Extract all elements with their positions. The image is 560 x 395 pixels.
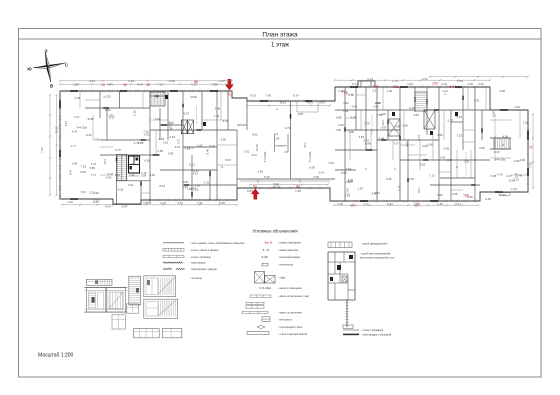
svg-text:2.92: 2.92 <box>343 101 349 105</box>
svg-text:8.01: 8.01 <box>417 187 421 193</box>
svg-text:2.85: 2.85 <box>158 149 164 153</box>
svg-text:9.52: 9.52 <box>169 121 175 125</box>
svg-text:4.37: 4.37 <box>506 174 512 178</box>
svg-text:2Н: 2Н <box>101 83 106 87</box>
svg-text:2.83: 2.83 <box>359 135 365 139</box>
svg-text:1.79: 1.79 <box>392 79 398 83</box>
svg-text:1.42: 1.42 <box>67 200 73 204</box>
svg-text:7.28: 7.28 <box>343 109 349 113</box>
svg-text:7а: 7а <box>227 93 231 97</box>
svg-text:1.39: 1.39 <box>409 177 415 181</box>
svg-text:3.46: 3.46 <box>215 107 221 111</box>
svg-text:6.72: 6.72 <box>352 82 358 86</box>
svg-text:7.20: 7.20 <box>40 147 44 153</box>
svg-text:- лестница: - лестница <box>190 277 203 280</box>
svg-text:9.69: 9.69 <box>94 137 100 141</box>
svg-text:Т=4.09м: Т=4.09м <box>263 152 267 163</box>
svg-text:9.03: 9.03 <box>250 94 256 98</box>
svg-text:8.92: 8.92 <box>252 133 258 137</box>
svg-text:8.35: 8.35 <box>491 174 497 178</box>
svg-text:- высота помещения: - высота помещения <box>278 287 303 290</box>
svg-text:7.23: 7.23 <box>80 190 86 194</box>
svg-text:1.46: 1.46 <box>517 173 523 177</box>
svg-text:3.36: 3.36 <box>452 192 458 196</box>
svg-text:6.33: 6.33 <box>184 111 190 115</box>
svg-text:- стена с окном и дверью: - стена с окном и дверью <box>190 249 219 252</box>
svg-text:2.52: 2.52 <box>478 82 484 86</box>
svg-text:h=4.05м: h=4.05м <box>495 158 506 162</box>
svg-text:1.99: 1.99 <box>274 137 280 141</box>
svg-text:2.31: 2.31 <box>204 181 210 185</box>
svg-text:8.89: 8.89 <box>365 142 371 146</box>
svg-text:2.27: 2.27 <box>197 201 203 205</box>
svg-text:5.12: 5.12 <box>189 162 195 166</box>
svg-text:9.45: 9.45 <box>479 146 485 150</box>
svg-text:1.29: 1.29 <box>387 89 393 93</box>
svg-text:5.19: 5.19 <box>132 110 136 116</box>
svg-text:2.23: 2.23 <box>115 173 121 177</box>
svg-text:4.53: 4.53 <box>93 191 99 195</box>
svg-text:4.62: 4.62 <box>371 191 377 195</box>
svg-text:3.91: 3.91 <box>348 178 354 182</box>
svg-text:9.48: 9.48 <box>379 137 385 141</box>
svg-text:4.86: 4.86 <box>395 125 401 129</box>
svg-text:8.59: 8.59 <box>219 201 225 205</box>
svg-text:8.46: 8.46 <box>206 148 210 154</box>
svg-text:3.39: 3.39 <box>143 201 149 205</box>
svg-text:7.37: 7.37 <box>397 185 401 191</box>
svg-text:5.32: 5.32 <box>456 115 462 119</box>
svg-text:9.08: 9.08 <box>309 166 315 170</box>
svg-text:Масштаб 1:200: Масштаб 1:200 <box>38 353 74 359</box>
svg-text:9.02: 9.02 <box>94 198 100 202</box>
svg-text:- номер помещения: - номер помещения <box>278 241 302 244</box>
svg-text:3Н: 3Н <box>123 83 128 87</box>
svg-text:7.73: 7.73 <box>177 139 181 145</box>
svg-text:4.22: 4.22 <box>160 201 166 205</box>
svg-text:6.66: 6.66 <box>80 170 86 174</box>
svg-text:- стена с верхней балкой: - стена с верхней балкой <box>278 333 308 336</box>
svg-text:3.50: 3.50 <box>363 203 369 207</box>
svg-text:6.26: 6.26 <box>144 159 150 163</box>
svg-text:3.41: 3.41 <box>128 183 134 187</box>
svg-text:- дверь остекленная: - дверь остекленная <box>278 312 302 315</box>
svg-text:2.35: 2.35 <box>105 94 111 98</box>
svg-text:3.83: 3.83 <box>168 152 174 156</box>
svg-text:В: В <box>50 84 53 89</box>
svg-text:1.63: 1.63 <box>187 187 193 191</box>
svg-text:4.49: 4.49 <box>422 144 428 148</box>
svg-text:4.79: 4.79 <box>285 126 291 130</box>
svg-text:3.54: 3.54 <box>141 174 147 178</box>
svg-text:9.25: 9.25 <box>386 177 392 181</box>
svg-text:1.42: 1.42 <box>214 114 220 118</box>
svg-text:9.62: 9.62 <box>105 108 111 112</box>
svg-text:5.98: 5.98 <box>220 137 226 141</box>
svg-text:Т=4.25м: Т=4.25м <box>76 126 87 130</box>
svg-text:7.99: 7.99 <box>265 94 271 98</box>
svg-text:9.43: 9.43 <box>106 176 112 180</box>
svg-text:- номер квартиры: - номер квартиры <box>278 249 299 252</box>
svg-text:14Н: 14Н <box>450 85 457 89</box>
svg-text:4.96: 4.96 <box>520 158 526 162</box>
svg-text:6.27: 6.27 <box>448 118 454 122</box>
svg-text:8.14: 8.14 <box>293 94 299 98</box>
svg-text:3.02: 3.02 <box>407 82 413 86</box>
svg-text:-3.28: -3.28 <box>261 255 268 259</box>
svg-text:1.87: 1.87 <box>108 113 114 117</box>
svg-text:- короб дымоудаления: - короб дымоудаления <box>361 242 388 245</box>
svg-text:5.21: 5.21 <box>372 89 378 93</box>
svg-text:9.12: 9.12 <box>86 133 92 137</box>
svg-text:2.41: 2.41 <box>318 171 324 175</box>
svg-text:- кухня-ниша: - кухня-ниша <box>278 264 293 267</box>
svg-text:4.41: 4.41 <box>107 83 113 87</box>
svg-text:2.49: 2.49 <box>121 205 127 209</box>
svg-text:1Т: 1Т <box>529 146 533 150</box>
svg-text:1.50: 1.50 <box>440 156 446 160</box>
svg-text:3.82: 3.82 <box>159 137 165 141</box>
svg-text:6.57: 6.57 <box>191 83 197 87</box>
svg-text:5.80: 5.80 <box>467 195 473 199</box>
svg-text:1.31: 1.31 <box>129 173 135 177</box>
svg-text:2.99: 2.99 <box>72 162 78 166</box>
svg-text:25.1: 25.1 <box>303 142 307 148</box>
svg-text:5.93: 5.93 <box>500 193 506 197</box>
svg-text:3кв В: 3кв В <box>264 240 271 244</box>
svg-text:- перегородки: - перегородки <box>190 262 207 265</box>
svg-text:1.95: 1.95 <box>295 189 301 193</box>
svg-text:h=4.29м: h=4.29м <box>259 286 270 290</box>
svg-text:9.84: 9.84 <box>247 189 253 193</box>
svg-text:1.20: 1.20 <box>357 186 363 190</box>
svg-text:3.73: 3.73 <box>134 141 140 145</box>
svg-text:4.63: 4.63 <box>155 117 161 121</box>
svg-text:8.81: 8.81 <box>280 101 286 105</box>
svg-text:6.81: 6.81 <box>444 147 450 151</box>
svg-text:5.76: 5.76 <box>115 148 121 152</box>
svg-text:1.65: 1.65 <box>335 128 341 132</box>
svg-text:7.33: 7.33 <box>456 134 462 138</box>
svg-text:- вентшахта: - вентшахта <box>278 318 292 321</box>
svg-text:3.54: 3.54 <box>103 159 107 165</box>
svg-text:4.61: 4.61 <box>307 101 313 105</box>
svg-text:9.35: 9.35 <box>118 188 124 192</box>
svg-text:3.51: 3.51 <box>64 121 68 127</box>
svg-text:6.81: 6.81 <box>185 146 191 150</box>
svg-text:4.16: 4.16 <box>441 82 447 86</box>
svg-text:5.86: 5.86 <box>89 166 95 170</box>
svg-text:17: 17 <box>169 127 173 131</box>
svg-text:2.30: 2.30 <box>338 123 344 127</box>
svg-text:9.01: 9.01 <box>183 180 189 184</box>
svg-text:Ю: Ю <box>27 67 32 72</box>
svg-text:6.76: 6.76 <box>497 173 503 177</box>
svg-text:7.63: 7.63 <box>346 167 352 171</box>
svg-text:4.09: 4.09 <box>446 158 452 162</box>
svg-text:12Н: 12Н <box>432 82 439 86</box>
svg-text:9.34: 9.34 <box>341 89 347 93</box>
svg-text:8.58: 8.58 <box>341 171 347 175</box>
svg-text:8Н: 8Н <box>296 184 301 188</box>
svg-text:8.51: 8.51 <box>159 184 165 188</box>
svg-text:5а: 5а <box>253 184 257 188</box>
svg-text:2.09: 2.09 <box>313 175 319 179</box>
svg-text:3.45: 3.45 <box>328 161 334 165</box>
svg-text:5.76: 5.76 <box>364 121 370 125</box>
svg-text:4.92: 4.92 <box>150 173 156 177</box>
svg-text:4.67: 4.67 <box>319 101 325 105</box>
svg-text:4.19: 4.19 <box>170 135 176 139</box>
svg-text:5.25: 5.25 <box>264 175 270 179</box>
svg-text:9.67: 9.67 <box>381 126 387 130</box>
svg-text:З: З <box>45 49 48 54</box>
svg-text:- часть здания, стена, образов: - часть здания, стена, образованного пок… <box>190 242 245 245</box>
svg-text:6.68: 6.68 <box>428 142 434 146</box>
svg-text:9.26: 9.26 <box>420 163 426 167</box>
svg-text:- стена с обшивкой: - стена с обшивкой <box>361 329 384 332</box>
svg-text:- лифт: - лифт <box>278 277 286 280</box>
svg-text:2.48: 2.48 <box>485 197 491 201</box>
svg-text:1.99: 1.99 <box>257 170 263 174</box>
svg-text:7.07: 7.07 <box>393 142 399 146</box>
svg-text:10.58: 10.58 <box>255 144 259 151</box>
svg-text:С: С <box>65 63 68 68</box>
svg-text:4.34: 4.34 <box>72 129 78 133</box>
svg-text:4.06: 4.06 <box>349 130 355 134</box>
svg-text:Т=4.09м: Т=4.09м <box>308 152 312 163</box>
svg-text:7.13: 7.13 <box>429 174 435 178</box>
svg-text:2.28: 2.28 <box>523 121 529 125</box>
svg-text:3.61: 3.61 <box>417 134 421 140</box>
svg-text:1.66: 1.66 <box>457 79 463 83</box>
svg-text:1.44: 1.44 <box>511 187 517 191</box>
svg-text:7.71: 7.71 <box>91 173 97 177</box>
svg-text:10.75: 10.75 <box>272 185 280 189</box>
svg-text:- стена с проёмом: - стена с проёмом <box>190 256 211 259</box>
svg-text:2.08: 2.08 <box>499 89 505 93</box>
svg-text:- дверь остекленная с зам.: - дверь остекленная с зам. <box>278 295 310 298</box>
svg-text:2.54: 2.54 <box>346 188 350 194</box>
svg-text:7.46: 7.46 <box>529 162 533 168</box>
svg-text:3.36: 3.36 <box>437 133 443 137</box>
svg-text:3.84: 3.84 <box>413 113 419 117</box>
svg-text:1.24: 1.24 <box>73 83 79 87</box>
svg-text:8.26: 8.26 <box>509 179 515 183</box>
svg-text:13а: 13а <box>393 85 399 89</box>
svg-text:9.87: 9.87 <box>298 112 304 116</box>
svg-text:6.00: 6.00 <box>402 124 408 128</box>
svg-text:3.44: 3.44 <box>437 193 443 197</box>
svg-text:9.49: 9.49 <box>137 83 143 87</box>
svg-text:10Н: 10Н <box>350 204 357 208</box>
svg-text:9.88: 9.88 <box>336 116 342 120</box>
svg-text:8.26: 8.26 <box>210 144 216 148</box>
svg-text:- высотный размер: - высотный размер <box>278 256 301 259</box>
svg-text:- перегородка с балк.: - перегородка с балк. <box>278 326 303 329</box>
svg-text:План этажа: План этажа <box>262 31 298 38</box>
svg-text:1.48: 1.48 <box>380 112 386 116</box>
svg-text:4.26: 4.26 <box>503 134 509 138</box>
svg-text:4.19: 4.19 <box>223 119 229 123</box>
svg-text:3.21: 3.21 <box>464 159 470 163</box>
svg-text:2.61: 2.61 <box>244 150 250 154</box>
svg-text:7.12: 7.12 <box>74 115 80 119</box>
svg-text:9.34: 9.34 <box>175 145 181 149</box>
svg-text:- перегородка с дверью: - перегородка с дверью <box>190 268 218 271</box>
svg-text:3.35: 3.35 <box>474 98 480 102</box>
svg-text:5.08: 5.08 <box>351 116 357 120</box>
svg-text:1 этаж: 1 этаж <box>271 43 289 49</box>
svg-text:1.63: 1.63 <box>197 144 203 148</box>
svg-text:8.58: 8.58 <box>88 117 94 121</box>
svg-text:вентиляция помещений с узл.: вентиляция помещений с узл. <box>360 256 395 259</box>
svg-text:3.39: 3.39 <box>75 96 81 100</box>
svg-text:1.20: 1.20 <box>467 82 473 86</box>
svg-text:4.36: 4.36 <box>514 105 520 109</box>
svg-text:3.39: 3.39 <box>351 104 357 108</box>
svg-text:7.63: 7.63 <box>193 187 199 191</box>
svg-text:2.93: 2.93 <box>144 133 150 137</box>
svg-text:6.54: 6.54 <box>105 205 111 209</box>
svg-text:3.15: 3.15 <box>409 106 415 110</box>
svg-text:2.99: 2.99 <box>373 105 379 109</box>
svg-text:4.62: 4.62 <box>405 141 409 147</box>
svg-text:3.11: 3.11 <box>252 153 258 157</box>
svg-text:9.15: 9.15 <box>193 169 199 173</box>
svg-text:7.62: 7.62 <box>81 165 87 169</box>
svg-text:5.63: 5.63 <box>225 158 231 162</box>
svg-text:- перегородка с обшивкой: - перегородка с обшивкой <box>361 333 392 336</box>
svg-text:- короб (вентиляционный): - короб (вентиляционный) <box>360 253 390 256</box>
svg-text:8.47: 8.47 <box>68 169 72 175</box>
svg-text:Условные обозначения: Условные обозначения <box>252 228 297 233</box>
svg-text:1.77: 1.77 <box>71 144 77 148</box>
svg-text:5, 7а: 5, 7а <box>263 248 270 252</box>
